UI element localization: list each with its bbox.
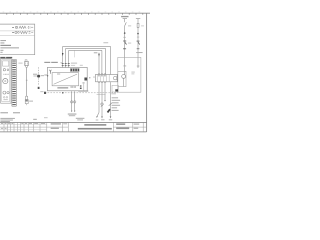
PSU strain relief Y symbol	[50, 70, 52, 74]
PSU module small mark	[57, 74, 60, 75]
page background	[0, 0, 150, 150]
cabinet boundary label	[78, 90, 88, 91]
cabinet boundary start blob	[44, 92, 46, 94]
control station inner box	[2, 60, 10, 102]
legend row separator 1	[0, 30, 35, 32]
junction dot on wire A	[124, 32, 126, 34]
legend row separator 2	[0, 34, 35, 36]
motor label text in enclosure	[131, 71, 134, 74]
link relay to enclosure	[116, 77, 119, 79]
tie bar below relay	[97, 93, 106, 95]
PSU inner module box	[52, 73, 79, 86]
ruler column tick marks	[7, 13, 143, 15]
wire drop to relay x105	[104, 48, 106, 74]
PSU left terminal label	[44, 75, 47, 76]
legend note text lines	[0, 40, 19, 53]
supply wire L2 vertical	[65, 48, 67, 67]
arrow destination labels	[96, 120, 99, 121]
cable W1 label	[18, 63, 22, 64]
legend row2 zigzag VVV	[20, 31, 27, 33]
motor enclosure box	[118, 57, 141, 92]
wire x99 bend to arrow	[97, 112, 99, 116]
PSU small text right bottom	[82, 82, 85, 83]
control station lower marks	[3, 97, 5, 99]
cable entry dark blob	[115, 89, 118, 91]
plug contact circle on wire x102	[101, 103, 104, 106]
tiny label bottom center-left	[44, 117, 48, 118]
PSU terminal row label	[80, 65, 83, 66]
wire below relay x102	[101, 82, 103, 117]
border right edge	[146, 13, 148, 132]
wire below relay x99	[98, 82, 100, 112]
feeder wire B segment	[137, 19, 139, 68]
terminal tick on wire B	[137, 65, 140, 68]
tick on wire A mid	[123, 47, 126, 50]
feeder wire A upper segment	[124, 19, 126, 23]
legend row1 zigzag AAA	[19, 26, 26, 28]
designator labels right circuit	[128, 24, 131, 27]
field cable entry dashed column	[38, 67, 40, 74]
cabinet label small left	[40, 90, 43, 93]
supply wire L3 vertical	[68, 50, 70, 67]
legend row1 dash symbol	[12, 26, 14, 28]
junction dot on wire B	[137, 33, 139, 35]
drawing title text	[84, 124, 106, 126]
corner wire label	[103, 42, 108, 43]
cable gland lower dark mark	[38, 87, 40, 89]
sub-box label	[111, 93, 116, 94]
relay entry ticks	[98, 74, 105, 75]
control station outer box	[1, 59, 11, 104]
terminal strip TB1 terminals	[12, 61, 16, 106]
terminal tick marks on L1 L2 L3	[62, 63, 70, 66]
relay K1 coil circle	[114, 76, 117, 79]
control station button P3	[3, 91, 6, 94]
border top ruler line	[0, 12, 150, 14]
breaker CB2 on wire B	[137, 40, 140, 43]
relay K1 terminal marks	[98, 75, 105, 76]
control station label bar	[0, 57, 5, 59]
title block small cell texts	[1, 123, 45, 129]
PSU right small dot	[89, 77, 90, 78]
motor wire destination text	[68, 114, 77, 115]
breaker CB1 on wire A	[123, 40, 126, 43]
wire labels above PSU terminals	[60, 62, 62, 63]
PSU module diagonal	[54, 74, 78, 84]
legend row1 bracket symbol	[27, 26, 30, 28]
gland label left	[33, 74, 37, 75]
cable marker slash on wire x110.5	[109, 103, 113, 106]
title block	[0, 122, 147, 131]
note text small mid-left	[33, 119, 37, 120]
legend row2 equals symbol	[29, 31, 31, 33]
terminal strip TB1 rails	[11, 59, 13, 106]
contact tick on wire A	[123, 36, 125, 39]
incoming feeder label	[121, 16, 128, 17]
PSU right side connector blob	[84, 78, 87, 81]
control station button P4	[7, 92, 9, 94]
bottom-left note texts	[0, 112, 8, 113]
plug contacts on motor wires	[71, 101, 73, 103]
control station indicator dots	[3, 74, 8, 75]
cable tag dark blob	[107, 109, 111, 113]
scale cell texts	[134, 124, 140, 125]
wire drop to relay x101.9	[101, 50, 103, 74]
cabinet boundary junction dot	[62, 92, 64, 94]
supply wire L2 horizontal	[66, 47, 106, 49]
PSU earth terminal dots	[80, 85, 82, 86]
motor wire arrowheads	[71, 111, 72, 113]
PSU name text	[57, 87, 68, 88]
title block column dividers	[4, 122, 143, 131]
conductor list text stack	[112, 97, 121, 111]
relay block K1	[96, 74, 118, 81]
relay K1 cell dividers	[98, 75, 110, 83]
contact tick on wire B	[137, 36, 139, 39]
control station button P2	[7, 69, 9, 71]
PSU left terminal dot	[47, 75, 48, 76]
legend row2 dash symbol	[12, 31, 14, 33]
PSU module bottom pads	[71, 86, 73, 87]
motor feed wire M1	[71, 91, 73, 111]
cable W1 bottom connector	[26, 96, 28, 99]
feeder wire A top T-bar	[123, 18, 127, 20]
supply wire L3 horizontal	[69, 49, 102, 51]
faint feeder stub to PSU terminals	[74, 51, 76, 58]
PSU outer box U1	[47, 67, 87, 90]
cable W1 connector label	[29, 101, 33, 102]
PSU terminal row dark terminals	[71, 69, 80, 72]
gland label right	[41, 74, 44, 77]
disconnect switch S1	[125, 22, 127, 25]
cable gland filled circle	[37, 75, 40, 78]
motor M circle	[122, 75, 126, 79]
power supply unit label	[44, 62, 50, 63]
title block row lines	[0, 126, 68, 128]
cabinet boundary dash-dot line	[45, 92, 118, 94]
wire drop to relay x110.5	[109, 46, 111, 74]
control station button P1	[3, 69, 5, 71]
stub wire label	[94, 52, 98, 53]
fuse F1 on wire B	[137, 23, 139, 27]
wire below relay x105	[104, 82, 106, 101]
notes above title block left	[0, 118, 15, 122]
note text center above title block	[76, 118, 85, 119]
cable W1 wire	[26, 67, 28, 96]
drawing number text	[116, 123, 125, 125]
control station display window	[3, 61, 9, 66]
control station big pushbutton	[3, 79, 8, 84]
approvals cell texts	[51, 123, 61, 124]
feeder wire B top T-bar	[136, 18, 140, 20]
supply wire L1 horizontal	[63, 45, 111, 47]
wire below relay x110.5	[110, 82, 112, 117]
cable W1 top connector	[25, 60, 27, 62]
legend box top-left	[0, 24, 35, 55]
enclosure label top right	[136, 52, 142, 53]
terminal labels right of ticks	[71, 63, 77, 64]
wire direction arrow on L1	[62, 53, 64, 56]
cable entry sub-box	[112, 85, 118, 92]
PSU right compartment divider	[83, 82, 85, 91]
relay label left	[93, 76, 95, 79]
feeder wire A mid segment	[124, 26, 126, 67]
motor inner box	[118, 71, 126, 86]
motor feed wire M2	[74, 91, 76, 111]
stub wire with arrow into relay	[98, 53, 100, 75]
legend row2 circle symbols	[15, 31, 17, 33]
relay exit ticks	[98, 81, 105, 84]
ruler column numbers (faint)	[3, 12, 141, 13]
legend row1 circle symbol	[15, 26, 17, 28]
PSU terminal row outline	[70, 68, 79, 71]
wire into motor	[124, 67, 126, 75]
tick on wire B mid	[137, 47, 140, 50]
supply wire L1 vertical	[62, 46, 64, 67]
terminal tick on wire A	[123, 65, 126, 68]
